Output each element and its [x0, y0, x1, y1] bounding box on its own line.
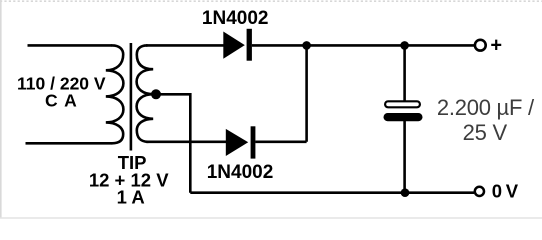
svg-text:2.200 µF /: 2.200 µF / — [437, 95, 535, 120]
capacitor C1 negative plate — [384, 113, 423, 121]
node center tap — [151, 89, 161, 99]
wire D1 cathode to + terminal — [252, 44, 475, 47]
wire primary top lead — [28, 44, 113, 47]
svg-text:1 A: 1 A — [117, 187, 145, 208]
svg-text:1N4002: 1N4002 — [202, 8, 269, 29]
wire secondary top to diode D1 — [146, 44, 224, 47]
node junction capacitor / 0V rail — [401, 188, 410, 197]
svg-text:C A: C A — [45, 91, 77, 111]
wire center tap to 0V rail — [156, 94, 190, 192]
node junction capacitor / top rail — [400, 41, 409, 50]
transformer T1 core — [130, 43, 133, 151]
svg-text:+: + — [490, 34, 502, 56]
diode D2 cathode bar — [251, 126, 256, 158]
svg-text:25 V: 25 V — [463, 120, 508, 145]
wire riser D2 to top rail — [305, 45, 308, 141]
wire 0V rail — [190, 191, 474, 194]
svg-text:1N4002: 1N4002 — [207, 162, 274, 183]
wire secondary bottom to diode D2 — [146, 141, 227, 144]
diode D1 anode triangle — [223, 32, 245, 59]
wire D2 cathode to riser — [255, 141, 306, 144]
node junction D2 riser / top rail — [302, 41, 311, 50]
wire capacitor bottom lead — [403, 121, 406, 193]
wire capacitor top lead — [403, 45, 406, 101]
wire primary bottom lead — [26, 142, 113, 145]
diode D1 cathode bar — [247, 29, 252, 61]
terminal + output — [475, 40, 486, 51]
diode D2 anode triangle — [226, 129, 248, 156]
transformer T1 primary winding — [106, 45, 124, 143]
svg-text:0 V: 0 V — [492, 180, 519, 201]
capacitor C1 positive plate — [385, 101, 420, 107]
terminal 0V output — [475, 187, 484, 196]
transformer T1 secondary winding — [137, 45, 154, 141]
